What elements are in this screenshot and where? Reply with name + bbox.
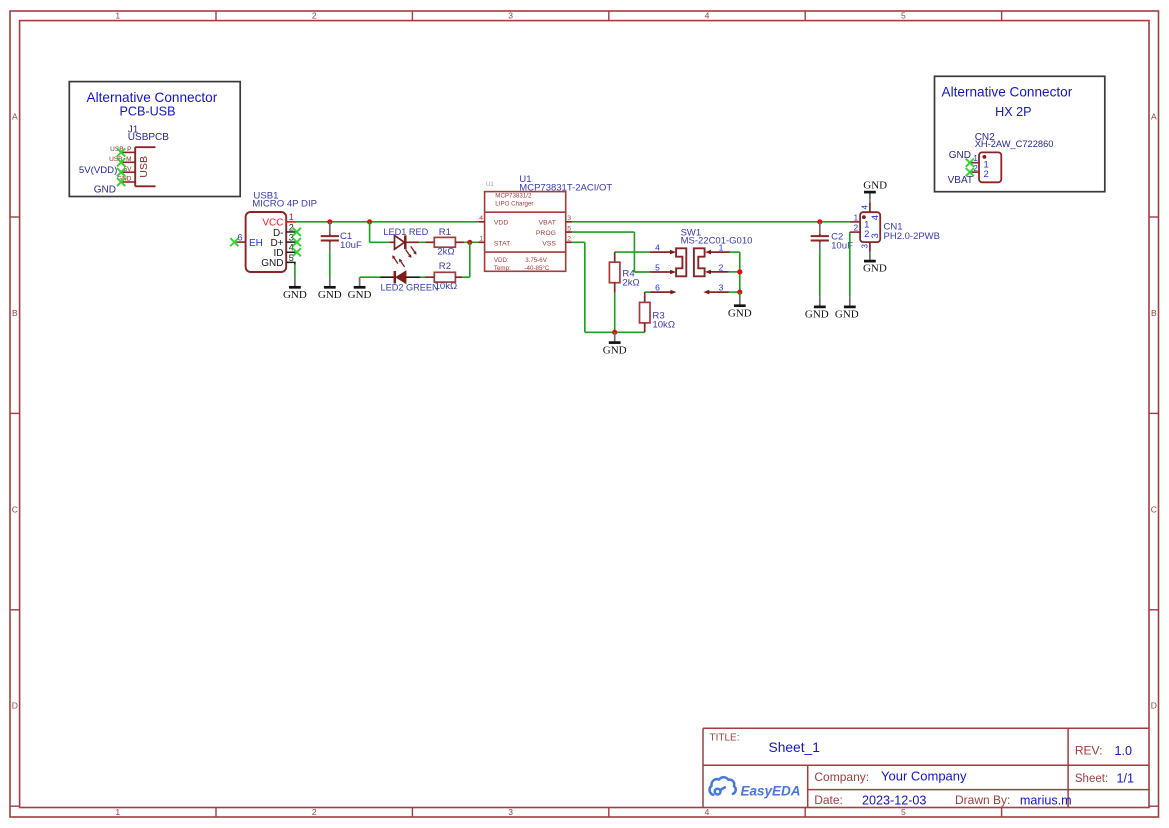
U1 pin 4 stub VDD (478, 221, 484, 223)
SW1 designator (681, 228, 753, 247)
svg-text:1: 1 (479, 236, 483, 243)
svg-text:D: D (1151, 701, 1157, 711)
wire PROG vertical (633, 232, 635, 272)
USB1 pin 6 stub (236, 241, 245, 243)
ground flag (LED2) (348, 277, 372, 301)
svg-text:-40-85°C: -40-85°C (525, 265, 550, 272)
svg-text:REV:: REV: (1075, 743, 1103, 757)
junction node at C2 top (817, 219, 822, 224)
svg-text:Company:: Company: (814, 770, 869, 784)
svg-text:Sheet_1: Sheet_1 (769, 740, 820, 755)
svg-text:3: 3 (289, 233, 294, 243)
svg-text:Drawn By:: Drawn By: (955, 793, 1010, 807)
USB1 pin 2 stub (286, 231, 296, 233)
ground flag (SW1) (728, 296, 752, 320)
svg-text:5V(VDD): 5V(VDD) (79, 165, 117, 176)
svg-text:LIPO Charger: LIPO Charger (495, 201, 533, 208)
U1 pin 2 stub VSS (566, 241, 572, 243)
svg-text:10kΩ: 10kΩ (652, 320, 675, 331)
svg-text:5: 5 (901, 11, 906, 21)
capacitor C1 (321, 222, 339, 252)
U1 pin 5 stub PROG (566, 231, 572, 233)
U1 designator (519, 174, 612, 193)
SW1 pin 1 with arrow (705, 250, 730, 255)
connector CN2 XH-2AW symbol (971, 152, 1001, 182)
svg-text:3: 3 (567, 215, 571, 222)
svg-text:2023-12-03: 2023-12-03 (862, 793, 926, 807)
svg-text:1: 1 (289, 212, 294, 222)
wire SW1 pin3 to vertical (729, 291, 740, 293)
svg-text:GND: GND (94, 184, 116, 195)
SW1 pin 3 with arrow (703, 290, 729, 295)
svg-text:VBAT: VBAT (948, 175, 973, 186)
svg-text:1: 1 (854, 213, 859, 222)
svg-text:LED1 RED: LED1 RED (383, 227, 428, 237)
wire C2 to GND (819, 252, 821, 297)
U1 pin 3 stub VBAT (566, 221, 572, 223)
wire SW1 pin1 to vertical (730, 251, 740, 253)
svg-text:2: 2 (289, 222, 294, 232)
connector USB1 MICRO 4P DIP symbol (246, 212, 287, 272)
svg-text:2kΩ: 2kΩ (622, 278, 639, 289)
USB1 pin 4 stub (286, 251, 296, 253)
wire to SW1 ground (739, 292, 741, 295)
wire LED1 branch vertical (369, 222, 371, 243)
no-connect X J1 pin 4 (117, 178, 125, 186)
no-connect X USB1 pin 3 (293, 238, 301, 246)
svg-text:EasyEDA: EasyEDA (741, 783, 801, 798)
svg-text:XH-2AW_C722860: XH-2AW_C722860 (975, 139, 1054, 149)
svg-text:1.0: 1.0 (1115, 744, 1133, 758)
svg-text:6: 6 (655, 283, 660, 293)
resistor R3 (640, 292, 651, 332)
ground flag below CN1 (863, 252, 887, 275)
junction node at LED1 branch (367, 219, 372, 224)
svg-text:10kΩ: 10kΩ (435, 281, 458, 292)
no-connect X J1 pin 1 (117, 148, 125, 156)
svg-text:Alternative Connector: Alternative Connector (87, 90, 218, 105)
svg-text:B: B (12, 308, 18, 318)
switch SW1 MS-22C01 body (676, 248, 705, 276)
wire SW1 right vertical (739, 252, 741, 292)
junction node SW1 pin2 (737, 269, 742, 274)
svg-text:GND: GND (863, 263, 887, 275)
svg-text:A: A (12, 112, 18, 122)
wire USB1 pin5 to GND (294, 265, 296, 277)
svg-text:GND: GND (805, 309, 829, 321)
svg-text:1: 1 (719, 243, 724, 253)
wire LED1 to R1 (419, 241, 425, 243)
USB1 pin 1 stub (VCC) (286, 221, 296, 223)
alternative-connector HX 2P box (935, 76, 1105, 191)
svg-text:3: 3 (861, 244, 870, 249)
svg-text:B: B (1151, 308, 1157, 318)
svg-text:PROG: PROG (536, 230, 556, 237)
svg-text:3.75-6V: 3.75-6V (525, 257, 548, 264)
USB1 pin 5 elbow wire (286, 262, 295, 264)
svg-text:4: 4 (705, 11, 710, 21)
resistor R1 (425, 237, 464, 247)
svg-text:STAT: STAT (494, 241, 510, 248)
svg-text:4: 4 (861, 205, 870, 210)
svg-text:C: C (12, 504, 18, 514)
ground flag (C1) (318, 277, 342, 301)
wire VSS horizontal (572, 241, 585, 243)
svg-text:3: 3 (719, 283, 724, 293)
wire VSS vertical (584, 242, 586, 332)
junction node R1/STAT/R2 (467, 240, 472, 245)
SW1 pin 2 with arrow (705, 270, 729, 275)
svg-text:HX 2P: HX 2P (995, 105, 1031, 119)
connector CN1 PH2.0 symbol (850, 202, 880, 251)
no-connect X J1 pin 3 (117, 168, 125, 176)
wire SW1 pin6 elbow (645, 291, 650, 293)
no-connect X CN2 pin 2 (966, 168, 974, 176)
svg-text:GND: GND (283, 289, 307, 301)
connector CN2 designator (975, 132, 1054, 149)
svg-text:VSS: VSS (542, 241, 556, 248)
svg-text:1/1: 1/1 (1117, 772, 1135, 786)
svg-text:4: 4 (289, 243, 294, 253)
svg-text:2: 2 (984, 169, 989, 180)
svg-text:U1: U1 (486, 182, 494, 188)
wire SW1 pin2 to vertical (729, 271, 740, 273)
wire R2 to junction (462, 276, 470, 278)
CN1 designator (884, 222, 941, 243)
svg-text:VDD:: VDD: (494, 257, 509, 264)
svg-text:3: 3 (870, 233, 881, 238)
ground flag (CN1 pin2) (835, 297, 859, 321)
svg-text:5: 5 (289, 253, 294, 263)
svg-text:PCB-USB: PCB-USB (120, 105, 176, 119)
LED2 GREEN diode (380, 255, 420, 283)
svg-text:VDD: VDD (494, 219, 508, 226)
wire PROG horizontal (572, 231, 634, 233)
svg-text:VBAT: VBAT (539, 219, 556, 226)
svg-text:2: 2 (854, 224, 859, 233)
svg-text:5: 5 (655, 262, 660, 272)
svg-text:C: C (1151, 504, 1157, 514)
svg-text:2: 2 (567, 236, 571, 243)
wire LED2 to R2 (420, 276, 425, 278)
wire C1 to GND (329, 252, 331, 277)
SW1 pin 6 with arrow (650, 290, 676, 295)
LED1 RED diode (389, 235, 419, 258)
svg-text:2kΩ: 2kΩ (437, 246, 454, 257)
svg-text:2: 2 (312, 11, 317, 21)
wire to LED1 anode (370, 241, 390, 243)
connector J1 designator (128, 124, 169, 143)
svg-text:GND: GND (348, 289, 372, 301)
svg-text:4: 4 (705, 807, 710, 817)
connector USB1 designator (252, 191, 317, 210)
svg-text:4: 4 (870, 215, 881, 220)
capacitor C2 (811, 222, 829, 252)
svg-text:GND: GND (863, 180, 887, 192)
svg-text:1: 1 (115, 807, 120, 817)
svg-text:D: D (12, 701, 18, 711)
svg-text:2: 2 (864, 229, 869, 240)
junction node bottom rail (612, 330, 617, 335)
svg-text:4: 4 (479, 215, 483, 222)
resistor R2 (425, 272, 462, 282)
svg-text:2: 2 (312, 807, 317, 817)
svg-text:Alternative Connector: Alternative Connector (942, 85, 1073, 100)
wire 5V rail right (U1 VBAT to CN1) (572, 221, 850, 223)
ground flag (C2) (805, 297, 829, 321)
svg-text:Your Company: Your Company (881, 769, 967, 784)
ground flag (USB1 pin 5) (283, 277, 307, 301)
wire R4 top to SW1 pin4 (615, 251, 650, 253)
SW1 pin 4 with arrow (650, 250, 676, 255)
USB1 pin 3 stub (286, 241, 296, 243)
wire 5V rail left (USB1 to U1) (296, 221, 478, 223)
svg-text:1: 1 (115, 11, 120, 21)
wire GND to LED2 cathode (360, 276, 381, 278)
connector J1 USBPCB symbol (121, 147, 155, 186)
svg-text:R2: R2 (439, 261, 451, 272)
svg-text:3: 3 (508, 807, 513, 817)
wire CN1 pin2 vertical (849, 232, 851, 297)
junction node SW1 pin3 (737, 290, 742, 295)
IC U1 MCP73831 (485, 182, 566, 272)
resistor R4 (609, 252, 620, 293)
svg-text:USB: USB (138, 156, 150, 178)
svg-text:GND: GND (835, 309, 859, 321)
svg-text:GND: GND (603, 344, 627, 356)
svg-text:6: 6 (237, 232, 242, 242)
wire R1 to U1 STAT (464, 241, 478, 243)
svg-text:GND: GND (318, 289, 342, 301)
svg-text:5: 5 (567, 226, 571, 233)
ground flag (bottom rail) (603, 332, 627, 356)
svg-text:MICRO 4P DIP: MICRO 4P DIP (252, 199, 317, 210)
svg-text:4: 4 (655, 243, 660, 253)
svg-text:A: A (1151, 112, 1157, 122)
svg-text:10uF: 10uF (340, 240, 362, 251)
no-connect X USB1 pin 4 (293, 248, 301, 256)
svg-text:MCP73831/2: MCP73831/2 (495, 192, 532, 199)
wire R4 bottom (614, 293, 616, 333)
no-connect X USB1 pin 2 (293, 228, 301, 236)
svg-text:GND: GND (261, 258, 283, 269)
svg-text:3: 3 (508, 11, 513, 21)
svg-text:MS-22C01-G010: MS-22C01-G010 (681, 236, 753, 247)
svg-text:PH2.0-2PWB: PH2.0-2PWB (884, 231, 941, 242)
wire vertical R1 to R2 (469, 242, 471, 277)
svg-text:LED2 GREEN: LED2 GREEN (380, 282, 438, 292)
svg-text:Date:: Date: (814, 793, 843, 807)
svg-text:Sheet:: Sheet: (1075, 773, 1108, 785)
svg-text:EH: EH (249, 238, 263, 249)
no-connect X USB1 pin 6 (230, 238, 238, 246)
alternative-connector PCB-USB box (69, 82, 240, 197)
wire PROG to SW1 pin5 (634, 271, 650, 273)
junction node at C1 top (327, 219, 332, 224)
EasyEDA logo (710, 777, 801, 798)
svg-text:GND: GND (728, 308, 752, 320)
no-connect X J1 pin 2 (117, 158, 125, 166)
svg-text:1: 1 (973, 154, 978, 163)
SW1 pin 5 with arrow (650, 270, 676, 275)
wire VSS bottom rail (585, 331, 645, 333)
U1 pin 1 stub STAT (478, 241, 484, 243)
ground flag above CN1 (863, 180, 887, 203)
title block (703, 728, 1149, 807)
svg-text:GND: GND (949, 150, 971, 161)
svg-text:2: 2 (719, 262, 724, 272)
svg-text:marius.m: marius.m (1020, 793, 1072, 807)
svg-text:USBPCB: USBPCB (128, 132, 169, 143)
svg-text:R1: R1 (439, 227, 451, 238)
svg-text:TITLE:: TITLE: (710, 732, 740, 743)
svg-text:5: 5 (901, 807, 906, 817)
no-connect X CN2 pin 1 (966, 159, 974, 167)
svg-text:Temp:: Temp: (494, 265, 511, 272)
